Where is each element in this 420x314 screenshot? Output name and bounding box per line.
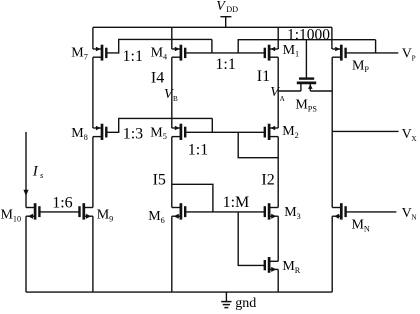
wire: M1 drain down to M2 source (node VA)	[277, 57, 279, 128]
svg-text:P: P	[364, 65, 369, 74]
svg-text:gnd: gnd	[235, 296, 256, 311]
label M6	[148, 209, 164, 225]
wire: MN gate lead out to VN terminal	[346, 211, 397, 213]
wire: M2 diode loop from gate lead down and right to drain column	[238, 132, 278, 157]
svg-text:B: B	[173, 95, 178, 103]
wire: M4 drain down to M5 source (node VB)	[171, 57, 173, 128]
terminal label VX	[402, 127, 418, 143]
wire: VDD rail corner down to MP source	[331, 27, 333, 49]
svg-text:M: M	[282, 124, 295, 139]
wire: M4 gate jog to gate lead line	[211, 39, 213, 53]
label M1	[283, 43, 299, 59]
label 1:6 (M10:M9 ratio)	[52, 195, 72, 212]
ground rail (bottom)	[26, 291, 332, 293]
svg-text:M: M	[97, 207, 110, 222]
label M4	[151, 46, 167, 62]
svg-text:V: V	[402, 206, 412, 221]
wire: M10-M9 common gate lead	[39, 211, 79, 213]
label 1:M (M6:M3 ratio)	[223, 194, 250, 211]
transistor M2 (mirrored PMOS, diode-connected)	[265, 124, 278, 140]
wire: M10 source to ground rail	[25, 216, 27, 292]
svg-text:10: 10	[13, 214, 21, 223]
svg-text:M: M	[1, 207, 14, 222]
wire: M9 source to ground rail	[92, 216, 94, 292]
transistor MP (output PMOS)	[332, 45, 345, 61]
svg-text:s: s	[40, 170, 44, 180]
wire: VDD rail down to M1 source	[277, 27, 279, 49]
wire: MP drain down right column	[331, 57, 333, 91]
transistor MPS (horizontal PMOS switch): gate feed from bus B	[305, 40, 307, 79]
label M7	[71, 46, 87, 62]
label MPS	[295, 98, 317, 114]
wire: M6-M3 common gate lead	[185, 211, 265, 213]
svg-text:6: 6	[161, 216, 165, 225]
svg-text:1:3: 1:3	[123, 126, 143, 143]
label MP	[352, 58, 369, 74]
svg-text:N: N	[364, 224, 370, 233]
label I5 current	[153, 172, 166, 189]
svg-text:P: P	[412, 55, 416, 63]
label M3	[284, 205, 300, 221]
svg-text:I4: I4	[151, 69, 164, 86]
node label VA	[270, 85, 285, 103]
ground symbol	[221, 292, 231, 308]
svg-text:M: M	[148, 209, 161, 224]
label M9	[97, 207, 113, 223]
wire: M5 drain down to M6 drain (I5 branch)	[171, 137, 173, 208]
transistor M1 (mirrored PMOS)	[265, 45, 278, 61]
svg-text:5: 5	[163, 132, 167, 141]
svg-text:1: 1	[295, 50, 299, 59]
svg-text:M: M	[150, 125, 163, 140]
transistor M5	[172, 124, 185, 140]
svg-text:M: M	[151, 46, 164, 61]
transistor MN (output NMOS)	[332, 203, 345, 219]
label 1:3 (M8:M5 ratio)	[123, 126, 143, 143]
svg-text:9: 9	[109, 214, 113, 223]
svg-text:M: M	[71, 126, 84, 141]
wire: branch from gate lead down to MR gate	[238, 212, 265, 266]
svg-text:M: M	[352, 217, 365, 232]
transistor M8	[93, 124, 106, 140]
wire: MN source to ground rail	[331, 216, 333, 292]
svg-text:8: 8	[84, 133, 88, 142]
transistor M10	[26, 203, 39, 219]
label 1:1 (M7:M4 ratio)	[123, 48, 143, 65]
svg-text:X: X	[411, 135, 417, 143]
MPS channel bar	[297, 82, 316, 85]
wire: M8 gate to row2 gate bus	[106, 118, 212, 132]
label M8	[71, 126, 87, 142]
power rail VDD (top)	[93, 26, 332, 28]
svg-text:M: M	[282, 259, 295, 274]
transistor M3 (mirrored NMOS)	[265, 203, 278, 219]
svg-text:V: V	[402, 127, 412, 142]
current input Is: wire with downward arrow into M10 drain	[23, 132, 28, 208]
label gnd	[235, 296, 256, 311]
supply symbol VDD	[216, 0, 238, 27]
label Is	[32, 163, 44, 180]
wire: M6 diode connection tee from drain column to gate lead	[172, 184, 213, 212]
label MN	[352, 217, 370, 233]
wire: VDD rail down to M4 source	[171, 27, 173, 49]
terminal label VN	[402, 206, 418, 222]
wire: M3 source down to MR drain	[277, 216, 279, 261]
svg-text:1:1: 1:1	[215, 56, 235, 73]
svg-text:I1: I1	[257, 68, 270, 85]
svg-text:1:1: 1:1	[188, 142, 208, 159]
wire: MR source to ground rail	[277, 269, 279, 292]
MPS left terminal stub and wire to node VA	[278, 83, 301, 91]
svg-text:M: M	[352, 58, 365, 73]
MPS right terminal stub with source arrow and wire to right column	[308, 83, 332, 91]
svg-text:7: 7	[84, 53, 88, 62]
wire: M8 drain down to M9 drain	[92, 137, 94, 208]
svg-text:1:1000: 1:1000	[287, 27, 330, 44]
wire: right column from VX down to MN drain	[331, 131, 333, 207]
svg-text:I5: I5	[153, 172, 166, 189]
svg-text:3: 3	[297, 212, 301, 221]
label I2 current	[261, 171, 274, 188]
svg-text:M: M	[71, 46, 84, 61]
wire: M5-M2 common gate lead	[185, 131, 265, 133]
svg-text:R: R	[295, 266, 301, 275]
label M10	[1, 207, 22, 223]
wire: M7 gate to common gate bus A	[106, 39, 212, 53]
label M2	[282, 124, 298, 140]
svg-text:1:1: 1:1	[123, 48, 143, 65]
wire: M7 drain down to M8 source	[92, 57, 94, 128]
wire: M4-M1 common gate lead	[185, 52, 265, 54]
label M5	[150, 125, 166, 141]
label MR	[282, 259, 300, 275]
label 1:1 (M5:M2 ratio)	[188, 142, 208, 159]
svg-text:DD: DD	[226, 5, 238, 14]
svg-text:M: M	[295, 98, 308, 113]
transistor M6 (diode-connected NMOS)	[172, 203, 185, 219]
wire: M5 jog down from row2 bus	[211, 118, 213, 132]
svg-text:2: 2	[295, 131, 299, 140]
svg-text:M: M	[284, 205, 297, 220]
transistor MR (mirrored NMOS)	[265, 257, 278, 273]
svg-text:4: 4	[163, 53, 167, 62]
label 1:1 (M4:M1 ratio)	[215, 56, 235, 73]
wire: VX output tap	[332, 130, 398, 132]
svg-text:1:6: 1:6	[52, 195, 72, 212]
transistor M7 (PMOS 1:1 mirror, diode side)	[93, 45, 106, 61]
wire: right column from MPS junction down to VX tap	[331, 91, 333, 131]
svg-text:M: M	[283, 43, 296, 58]
wire: VDD rail down to M7 source	[92, 27, 94, 49]
transistor M4	[172, 45, 185, 61]
label 1:1000 (M1:MP ratio)	[287, 27, 330, 44]
transistor M9 (mirrored NMOS)	[80, 203, 93, 219]
wire: M2 drain down to M3 drain (I2 branch)	[277, 137, 279, 208]
label I1 current	[257, 68, 270, 85]
MPS gate bar	[299, 77, 314, 79]
svg-text:I2: I2	[261, 171, 274, 188]
node label VB	[164, 87, 178, 103]
wire: M6 source to ground rail	[171, 216, 173, 292]
svg-text:1:M: 1:M	[223, 194, 250, 211]
label I4 current	[151, 69, 164, 86]
svg-text:V: V	[216, 0, 226, 14]
svg-text:A: A	[280, 95, 286, 103]
svg-text:PS: PS	[308, 105, 318, 114]
svg-text:V: V	[402, 47, 412, 62]
svg-text:N: N	[411, 214, 417, 222]
svg-text:I: I	[32, 163, 39, 179]
terminal label VP	[402, 47, 416, 63]
wire: MP gate lead out to VP terminal with jog up to gate bus B	[346, 40, 399, 53]
wire: gate bus B from lead line up and right to MP gate / VP	[238, 40, 375, 53]
